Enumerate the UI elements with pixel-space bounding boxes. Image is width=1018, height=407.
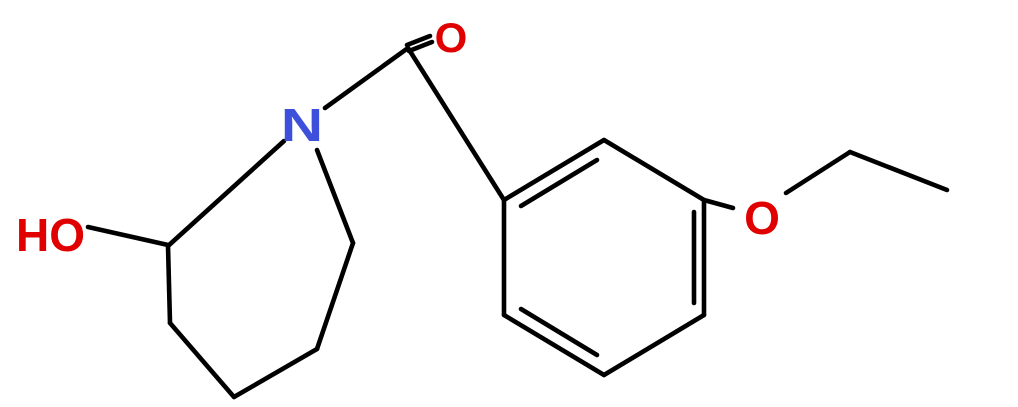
- svg-text:O: O: [435, 14, 468, 61]
- svg-text:HO: HO: [16, 209, 85, 261]
- svg-text:N: N: [281, 100, 323, 152]
- svg-text:O: O: [744, 192, 780, 244]
